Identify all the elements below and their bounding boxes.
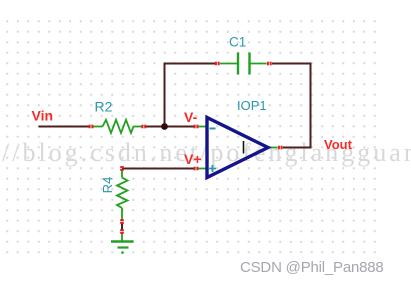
svg-text:V-: V- (184, 109, 198, 125)
svg-text:IOP1: IOP1 (237, 98, 267, 113)
svg-text:Vin: Vin (32, 108, 54, 124)
svg-text:R4: R4 (100, 177, 115, 194)
svg-text:C1: C1 (229, 35, 246, 50)
svg-text:R2: R2 (95, 99, 113, 115)
svg-text:V+: V+ (184, 151, 202, 167)
svg-text:Vout: Vout (324, 137, 353, 152)
